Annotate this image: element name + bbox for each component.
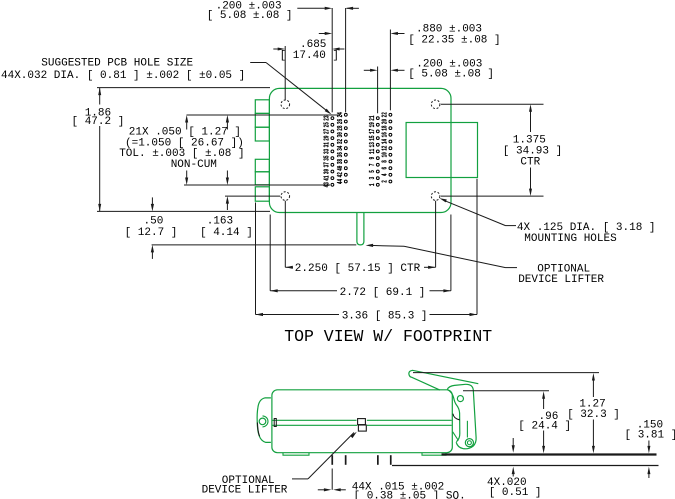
svg-text:12: 12 <box>380 145 389 150</box>
svg-text:14: 14 <box>380 139 389 144</box>
svg-text:32: 32 <box>336 139 345 144</box>
svg-text:[ 47.2 ]: [ 47.2 ] <box>72 116 125 128</box>
svg-text:25: 25 <box>322 122 331 127</box>
svg-text:[ 17.40 ]: [ 17.40 ] <box>280 50 339 62</box>
svg-text:DEVICE LIFTER: DEVICE LIFTER <box>518 274 604 286</box>
svg-text:29: 29 <box>322 135 331 140</box>
svg-text:1: 1 <box>368 183 377 186</box>
svg-text:23: 23 <box>322 115 331 120</box>
svg-text:18: 18 <box>380 125 389 130</box>
svg-text:[ 32.3 ]: [ 32.3 ] <box>567 409 620 421</box>
svg-text:35: 35 <box>322 155 331 160</box>
svg-text:26: 26 <box>336 119 345 124</box>
svg-text:MOUNTING HOLES: MOUNTING HOLES <box>524 233 617 245</box>
svg-text:11: 11 <box>368 149 377 154</box>
svg-text:[ 3.81 ]: [ 3.81 ] <box>625 429 675 441</box>
svg-text:42: 42 <box>336 172 345 177</box>
svg-text:.163: .163 <box>207 216 233 228</box>
svg-text:30: 30 <box>336 132 345 137</box>
svg-text:38: 38 <box>336 159 345 164</box>
svg-text:8: 8 <box>380 160 389 163</box>
svg-text:3: 3 <box>368 177 377 180</box>
svg-text:40: 40 <box>336 165 345 170</box>
svg-text:CTR: CTR <box>520 156 540 168</box>
svg-text:2.72 [ 69.1 ]: 2.72 [ 69.1 ] <box>340 287 426 299</box>
svg-text:DEVICE LIFTER: DEVICE LIFTER <box>202 484 288 496</box>
svg-text:[ 5.08 ±.08 ]: [ 5.08 ±.08 ] <box>408 69 494 81</box>
svg-text:41: 41 <box>322 175 331 180</box>
svg-text:17: 17 <box>368 129 377 134</box>
svg-text:44: 44 <box>336 179 345 184</box>
svg-text:22: 22 <box>380 112 389 117</box>
svg-text:[ 5.08 ±.08 ]: [ 5.08 ±.08 ] <box>207 10 293 22</box>
svg-text:20: 20 <box>380 119 389 124</box>
svg-text:9: 9 <box>368 157 377 160</box>
svg-text:[ 4.14 ]: [ 4.14 ] <box>200 227 253 239</box>
svg-text:[ 24.4 ]: [ 24.4 ] <box>518 421 571 433</box>
svg-text:[ 12.7 ]: [ 12.7 ] <box>125 227 178 239</box>
svg-text:19: 19 <box>368 122 377 127</box>
svg-text:28: 28 <box>336 125 345 130</box>
svg-text:4: 4 <box>380 173 389 176</box>
svg-text:33: 33 <box>322 149 331 154</box>
svg-text:13: 13 <box>368 142 377 147</box>
svg-text:7: 7 <box>368 163 377 166</box>
svg-text:31: 31 <box>322 142 331 147</box>
svg-text:34: 34 <box>336 145 345 150</box>
svg-text:44X.032 DIA. [ 0.81 ] ±.002 [: 44X.032 DIA. [ 0.81 ] ±.002 [ ±0.05 ] <box>1 70 245 82</box>
svg-text:[ 22.35 ±.08 ]: [ 22.35 ±.08 ] <box>408 35 500 47</box>
svg-text:TOP VIEW W/ FOOTPRINT: TOP VIEW W/ FOOTPRINT <box>284 327 492 346</box>
svg-text:NON-CUM: NON-CUM <box>171 159 217 171</box>
svg-text:16: 16 <box>380 132 389 137</box>
svg-text:39: 39 <box>322 169 331 174</box>
svg-text:27: 27 <box>322 129 331 134</box>
svg-text:10: 10 <box>380 152 389 157</box>
svg-text:[ 0.38 ±.05 ] SQ.: [ 0.38 ±.05 ] SQ. <box>354 491 466 499</box>
svg-text:37: 37 <box>322 162 331 167</box>
svg-text:15: 15 <box>368 135 377 140</box>
svg-text:[ 0.51 ]: [ 0.51 ] <box>489 487 542 499</box>
svg-text:21: 21 <box>368 115 377 120</box>
svg-text:2: 2 <box>380 180 389 183</box>
svg-text:2.250 [ 57.15 ] CTR: 2.250 [ 57.15 ] CTR <box>295 263 421 275</box>
svg-text:5: 5 <box>368 170 377 173</box>
svg-text:SUGGESTED PCB HOLE SIZE: SUGGESTED PCB HOLE SIZE <box>41 57 193 69</box>
svg-text:6: 6 <box>380 167 389 170</box>
svg-text:3.36 [ 85.3 ]: 3.36 [ 85.3 ] <box>342 311 428 323</box>
svg-text:.50: .50 <box>144 216 164 228</box>
svg-text:36: 36 <box>336 152 345 157</box>
